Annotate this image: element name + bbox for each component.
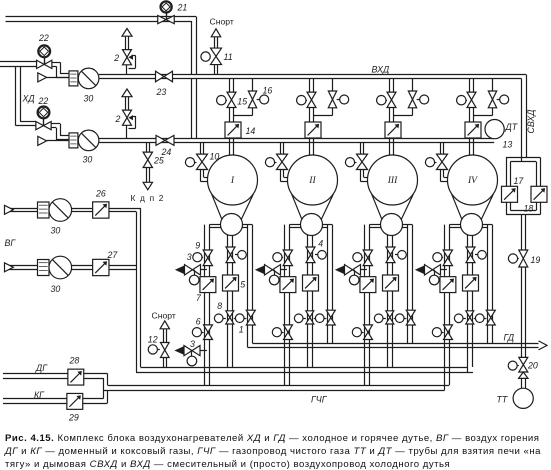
label 22 — [38, 33, 49, 43]
wire: snort valve 11 drop to ВХД — [215, 65, 218, 75]
wire: chimney-valve column C (heater III) — [408, 225, 413, 344]
wire: valve 16 bypass rejoin (heater III) — [394, 107, 413, 115]
svg-text:29: 29 — [68, 413, 79, 423]
flow meter 7 (heater III) — [360, 277, 376, 293]
burner shell circle (heater III) — [381, 214, 403, 236]
svg-text:КГ: КГ — [34, 390, 45, 400]
label 7 — [196, 293, 202, 303]
wire: valve 22.2 outlet elbow into blower 2 — [51, 124, 69, 140]
label 17 — [514, 176, 525, 186]
wire: air column B small-circle to manifold (heater IV) — [468, 235, 473, 373]
wire: combustion-air downcomer V1 — [137, 208, 141, 372]
wire: ВХД drop to valve 16 bypass (heater II) — [332, 79, 334, 92]
snort valve 12 — [148, 321, 169, 358]
wire: ВХД drop to valve 15 group (heater III) — [390, 79, 394, 93]
svg-text:22: 22 — [38, 33, 49, 43]
flow meter 18 — [531, 186, 547, 202]
label 19 — [531, 255, 541, 265]
svg-text:30: 30 — [51, 226, 61, 236]
label heater numeral I — [230, 175, 235, 186]
wire: meter 29 outlet elbow to ГЧГ — [83, 391, 108, 404]
svg-text:22: 22 — [38, 96, 49, 106]
air heater dome IV — [448, 155, 498, 205]
flow meter 5 (heater III) — [383, 275, 399, 291]
wire: fan 2 outlet to meter 27 — [72, 266, 93, 270]
valve 6 (heater I) — [192, 325, 212, 340]
wire: valve 15 to meter box (heater I) — [230, 108, 234, 123]
svg-text:14: 14 — [246, 126, 256, 136]
wire: valve 10 stub from mixing line (heater II) — [281, 143, 284, 155]
svg-text:К д п 2: К д п 2 — [131, 193, 164, 203]
label 30 — [51, 226, 61, 236]
burner shell circle (heater II) — [301, 214, 323, 236]
flow meter 14 (heater II) — [305, 122, 321, 138]
svg-text:2: 2 — [113, 53, 119, 63]
svg-text:27: 27 — [107, 250, 119, 260]
flow meter 7 (heater I) — [200, 277, 216, 293]
valve 9 (heater IV) — [433, 250, 453, 266]
svg-text:СВХД: СВХД — [526, 110, 536, 134]
label 22 — [38, 96, 49, 106]
flow meter 7 (heater IV) — [440, 277, 456, 293]
wire: air column B small-circle to manifold (heater III) — [388, 235, 393, 368]
valve 6 (heater IV) — [432, 325, 452, 340]
wire: valve 19 down across ГД to valve 20 — [522, 267, 526, 357]
label 14 — [246, 126, 256, 136]
wire: burner shell right tee (heater I) — [242, 225, 252, 228]
valve 16 (heater I) — [248, 91, 268, 108]
wire: loop outlet down to valve 19 — [522, 215, 526, 251]
label ТТ — [497, 395, 508, 405]
label 21 — [177, 3, 188, 13]
valve 1 (heater IV) — [474, 310, 496, 325]
svg-text:26: 26 — [95, 189, 106, 199]
svg-text:тягу» и дымовая СВХД и ВХД —: тягу» и дымовая СВХД и ВХД — смесительны… — [5, 459, 450, 470]
valve 8 (heater II) — [294, 311, 313, 324]
label ГЧГ — [311, 395, 328, 405]
flow meter 14 (heater III) — [385, 122, 401, 138]
valve 9 (heater III) — [353, 250, 373, 266]
svg-text:13: 13 — [503, 140, 513, 150]
svg-text:17: 17 — [514, 176, 525, 186]
svg-text:ДГ: ДГ — [35, 363, 48, 373]
label 16 — [263, 86, 273, 96]
svg-text:9: 9 — [195, 241, 200, 251]
draft meter ДТ — [485, 120, 504, 139]
svg-text:ВХД: ВХД — [372, 65, 390, 75]
label ВГ — [5, 238, 17, 248]
valve 25 with vent К д п 2 — [143, 152, 152, 190]
svg-text:28: 28 — [69, 356, 80, 366]
wire: ВХД drop to valve 16 bypass (heater III) — [412, 79, 414, 92]
wire: valve 15 to meter box (heater IV) — [470, 108, 474, 123]
air valve top (heater IV) — [466, 247, 486, 263]
valve 10 (heater II) — [265, 154, 287, 169]
label 30 — [51, 284, 61, 294]
svg-text:III: III — [387, 175, 398, 186]
svg-text:ТТ: ТТ — [497, 395, 508, 405]
wire: blast-furnace gas inlet ДГ — [3, 374, 68, 379]
air heater funnel (heater III) — [372, 194, 414, 220]
wire: 3-way stub to column A upper (heater II) — [281, 269, 287, 271]
valve 16 (heater III) — [408, 91, 428, 108]
air heater dome II — [288, 155, 338, 205]
wire: valve 16 bypass rejoin (heater IV) — [474, 107, 493, 115]
flow meter 14 (heater I) — [225, 122, 241, 138]
flow meter 28 (ДГ) — [68, 369, 84, 385]
valve 9 (heater II) — [273, 250, 293, 266]
3-way purge valve lower (heater I) — [174, 346, 200, 366]
svg-text:ДГ и КГ — доменный и коксовый: ДГ и КГ — доменный и коксовый газы, ГЧГ … — [4, 446, 541, 457]
svg-text:15: 15 — [237, 97, 247, 107]
wire: gas riser column A (heater III) — [365, 225, 370, 385]
svg-text:5: 5 — [240, 280, 245, 290]
wire: blow-off line to valve 21 (top left, double line) — [6, 17, 197, 22]
svg-text:8: 8 — [217, 301, 222, 311]
valve 1 (heater III) — [394, 310, 416, 325]
3-way purge valve upper (heater II) — [255, 265, 281, 285]
label СВХД (rotated) — [526, 110, 536, 134]
wire: ВХД drop to valve 15 group (heater IV) — [470, 79, 474, 93]
label 27 — [107, 250, 119, 260]
label 12 — [148, 335, 158, 345]
svg-text:21: 21 — [177, 3, 188, 13]
flow meter 7 (heater II) — [280, 277, 296, 293]
3-way purge valve upper (heater I) — [175, 265, 201, 285]
wire: burner shell right tee (heater IV) — [482, 225, 492, 228]
wire: chimney-valve column C (heater I) — [248, 225, 253, 348]
air heater dome I — [208, 155, 258, 205]
label 29 — [68, 413, 79, 423]
3-way purge valve upper (heater III) — [335, 265, 361, 285]
svg-text:30: 30 — [84, 94, 94, 104]
wire: gas riser column A (heater II) — [285, 225, 290, 385]
wire: clean gas manifold ГЧГ — [104, 386, 450, 391]
valve 19 — [508, 250, 527, 267]
blower 30 (unit 1) — [38, 68, 99, 89]
3-way purge valve upper (heater IV) — [415, 265, 441, 285]
svg-text:20: 20 — [527, 361, 538, 371]
label heater numeral III — [387, 175, 398, 186]
flow meter 26 — [93, 202, 109, 218]
wire: burner shell left tee (heater IV) — [449, 225, 461, 228]
svg-text:19: 19 — [531, 255, 541, 265]
wire: valve 10 stub from mixing line (heater IV) — [441, 143, 444, 155]
flow meter 17 — [502, 186, 518, 202]
wire: valve 16 bypass rejoin (heater II) — [314, 107, 333, 115]
wire: valve 25 stub from mixing line — [147, 143, 150, 153]
svg-text:IV: IV — [467, 175, 478, 186]
wire: air column B small-circle to manifold (heater I) — [228, 235, 233, 368]
valve 24 (on mixing line) — [156, 135, 174, 145]
wire: valve 20 down to chimney ТТ — [522, 378, 526, 388]
wire: intake stub into blower 2 — [47, 140, 69, 142]
label ХД — [22, 94, 35, 104]
svg-text:11: 11 — [224, 52, 233, 62]
valve 15 (heater II) — [297, 92, 316, 107]
valve 8 (heater IV) — [454, 311, 473, 324]
wire: fan 1 outlet to meter 26 — [72, 209, 93, 212]
label heater numeral IV — [467, 175, 478, 186]
label 3 — [190, 339, 195, 349]
wire: cold blast main ВХД (horizontal double line) — [99, 75, 526, 79]
wire: vertical link from cold-blast main down to mixing main — [192, 79, 197, 139]
wire: burner shell right tee (heater III) — [402, 225, 412, 228]
label Снорт — [152, 310, 176, 320]
svg-text:6: 6 — [196, 317, 201, 327]
wire: valve 15 to meter box (heater III) — [390, 108, 394, 123]
wire: valve 10 elbow into dome (heater IV) — [440, 169, 450, 181]
valve 22 (blower-1 inlet gate with actuator) — [37, 45, 52, 68]
svg-text:Снорт: Снорт — [210, 17, 234, 27]
wire: meter 27 outlet to air riser — [109, 266, 136, 270]
svg-text:2: 2 — [115, 114, 121, 124]
valve 10 (heater III) — [345, 154, 367, 169]
relief valve 2 (blower 1) — [122, 29, 136, 75]
wire: ВХД drop to valve 15 group (heater I) — [230, 79, 234, 93]
svg-text:II: II — [308, 175, 316, 186]
valve 6 (heater III) — [352, 325, 372, 340]
wire: valve 10 stub from mixing line (heater III) — [361, 143, 364, 155]
wire: burner shell left tee (heater III) — [369, 225, 381, 228]
flow meter 14 (heater IV) — [465, 122, 481, 138]
wire: gas riser column A (heater IV) — [445, 225, 450, 391]
valve 21 (snort gate with actuator) — [158, 1, 175, 23]
svg-text:12: 12 — [148, 335, 158, 345]
valve 1 (heater I) — [234, 310, 256, 325]
svg-text:4: 4 — [318, 239, 323, 249]
wire: cold blast inlet ХД (left edge) — [0, 62, 37, 67]
label 18 — [524, 204, 534, 214]
wire: valve 10 elbow into dome (heater I) — [200, 169, 210, 181]
svg-text:ВГ: ВГ — [5, 238, 17, 248]
valve 16 (heater IV) — [488, 91, 508, 108]
valve 20 — [508, 357, 528, 378]
air valve top (heater II) — [306, 247, 326, 263]
label 11 — [224, 52, 233, 62]
label 4 — [318, 239, 323, 249]
wire: valve 10 elbow into dome (heater III) — [360, 169, 370, 181]
label 10 — [210, 152, 220, 162]
arrowhead: ГД outlet arrow — [539, 341, 548, 350]
label 6 — [196, 317, 201, 327]
svg-text:30: 30 — [51, 284, 61, 294]
wire: meter 26 outlet to air riser — [109, 209, 141, 212]
label 2 — [115, 114, 121, 124]
wire: valve 22 outlet elbow into blower 1 — [52, 62, 69, 77]
wire: elbow from valve-21 line down to cold-blast main — [192, 17, 197, 75]
valve 8 (heater I) — [214, 311, 233, 324]
label 8 — [217, 301, 222, 311]
svg-text:10: 10 — [210, 152, 220, 162]
relief valve 2 (blower 2) — [122, 89, 136, 139]
svg-text:30: 30 — [83, 155, 93, 165]
air valve top (heater III) — [386, 247, 406, 263]
wire: ВХД drop to valve 16 bypass (heater I) — [252, 79, 254, 92]
valve 6 (heater II) — [272, 325, 292, 340]
valve 10 (heater I) — [185, 154, 207, 169]
label ВХД — [372, 65, 390, 75]
wire: mixing cold-blast line СВХД horizontal run — [99, 139, 494, 143]
label КГ — [34, 390, 45, 400]
wire: intake stub into blower 1 — [47, 77, 69, 79]
wire: 3-way stub to column A upper (heater IV) — [441, 269, 447, 271]
svg-text:23: 23 — [156, 87, 167, 97]
label ГД — [504, 333, 515, 343]
label ДТ — [505, 122, 518, 132]
wire: combustion air inlet ВГ row 1 — [5, 209, 38, 212]
valve 1 (heater II) — [314, 310, 336, 325]
label К&#160; д&#160; п&#160; 2 — [131, 193, 164, 203]
burner shell circle (heater I) — [221, 214, 243, 236]
label 2 — [113, 53, 119, 63]
label 15 — [237, 97, 247, 107]
label 24 — [161, 147, 172, 157]
chimney ТТ — [513, 388, 533, 408]
fan 30 (combustion air, unit 1) — [5, 199, 72, 222]
valve 9 (heater I) — [193, 250, 213, 266]
svg-text:1: 1 — [239, 325, 244, 335]
valve 15 (heater IV) — [457, 92, 476, 107]
svg-text:16: 16 — [263, 86, 273, 96]
svg-text:Рис. 4.15. Комплекс блока возд: Рис. 4.15. Комплекс блока воздухонагрева… — [5, 433, 539, 444]
label 25 — [153, 156, 164, 166]
wire: burner shell left tee (heater I) — [209, 225, 221, 228]
wire: right elbow of ВХД down (СВХД riser) — [522, 75, 527, 162]
wire: air column B small-circle to manifold (heater II) — [308, 235, 313, 368]
flow meter 27 — [93, 259, 109, 275]
valve 8 (heater III) — [374, 311, 393, 324]
wire: burner shell left tee (heater II) — [289, 225, 301, 228]
label 26 — [95, 189, 106, 199]
label 3 — [187, 252, 192, 262]
wire: hot blast main ГД — [248, 344, 539, 348]
air heater funnel (heater I) — [212, 194, 254, 220]
wire: branch from ХД down to second blower — [16, 66, 37, 126]
valve 16 (heater II) — [328, 91, 348, 108]
wire: chimney-valve column C (heater II) — [328, 225, 333, 344]
valve 22.2 (blower-2 inlet gate with actuator) — [36, 107, 51, 130]
snort valve 11 — [201, 29, 222, 65]
label ДГ — [35, 363, 48, 373]
flow meter 5 (heater IV) — [463, 275, 479, 291]
label 13 — [503, 140, 513, 150]
label 9 — [195, 241, 200, 251]
svg-text:3: 3 — [190, 339, 195, 349]
wire: 3-way stub to column A lower (heater I) — [200, 350, 207, 352]
label Снорт — [210, 17, 234, 27]
valve 15 (heater I) — [217, 92, 236, 107]
label 5 — [240, 280, 245, 290]
wire: meter box down into dome top (heater I) — [230, 138, 234, 156]
blower 30 (unit 2) — [38, 130, 99, 151]
label 28 — [69, 356, 80, 366]
wire: meter box down into dome top (heater II) — [310, 138, 314, 156]
air valve top (heater I) — [226, 247, 246, 263]
svg-text:Снорт: Снорт — [152, 310, 176, 320]
label 20 — [527, 361, 538, 371]
wire: valve 10 elbow into dome (heater II) — [280, 169, 290, 181]
svg-text:25: 25 — [153, 156, 164, 166]
figure caption — [4, 433, 541, 470]
wire: ВХД drop to valve 16 bypass (heater IV) — [492, 79, 494, 92]
valve 15 (heater III) — [377, 92, 396, 107]
wire: chimney-valve column C (heater IV) — [488, 225, 493, 344]
flow meter 5 (heater II) — [303, 275, 319, 291]
flow meter 5 (heater I) — [223, 275, 239, 291]
svg-text:ДТ: ДТ — [505, 122, 518, 132]
wire: combustion air inlet ВГ row 2 — [5, 266, 38, 270]
air heater funnel (heater II) — [292, 194, 334, 220]
label 23 — [156, 87, 167, 97]
valve 23 (on ВХД) — [156, 71, 173, 82]
label heater numeral II — [308, 175, 316, 186]
svg-text:3: 3 — [187, 252, 192, 262]
valve 10 (heater IV) — [425, 154, 447, 169]
burner shell circle (heater IV) — [461, 214, 483, 236]
wire: snort valve 12 drop to air manifold — [164, 358, 167, 368]
svg-text:7: 7 — [196, 293, 202, 303]
wire: 3-way stub to column A upper (heater I) — [201, 269, 207, 271]
wire: bypass loop around meters 17 and 18 — [506, 158, 541, 215]
label 30 — [84, 94, 94, 104]
fan 30 (combustion air, unit 2) — [5, 256, 72, 279]
wire: meter box down into dome top (heater III) — [390, 138, 394, 156]
svg-text:ХД: ХД — [22, 94, 35, 104]
svg-text:ГЧГ: ГЧГ — [311, 395, 328, 405]
wire: ВХД drop to valve 15 group (heater II) — [310, 79, 314, 93]
wire: burner shell right tee (heater II) — [322, 225, 332, 228]
wire: meter box down into dome top (heater IV) — [470, 138, 474, 156]
wire: 3-way stub to column A upper (heater III) — [361, 269, 367, 271]
flow meter 29 (КГ) — [67, 393, 83, 409]
wire: coke gas inlet КГ — [3, 399, 67, 404]
svg-text:ГД: ГД — [504, 333, 515, 343]
wire: combustion air manifold (horizontal double line) — [136, 368, 473, 373]
label 1 — [239, 325, 244, 335]
air heater funnel (heater IV) — [452, 194, 494, 220]
wire: gas riser column A (heater I) — [205, 225, 210, 385]
wire: valve 15 to meter box (heater II) — [310, 108, 314, 123]
wire: meter 28 outlet elbow to ГЧГ — [84, 374, 108, 391]
svg-text:18: 18 — [524, 204, 534, 214]
wire: valve 16 bypass rejoin (heater I) — [234, 107, 253, 115]
air heater dome III — [368, 155, 418, 205]
wire: valve 10 stub from mixing line (heater I) — [201, 143, 204, 155]
label 30 — [83, 155, 93, 165]
